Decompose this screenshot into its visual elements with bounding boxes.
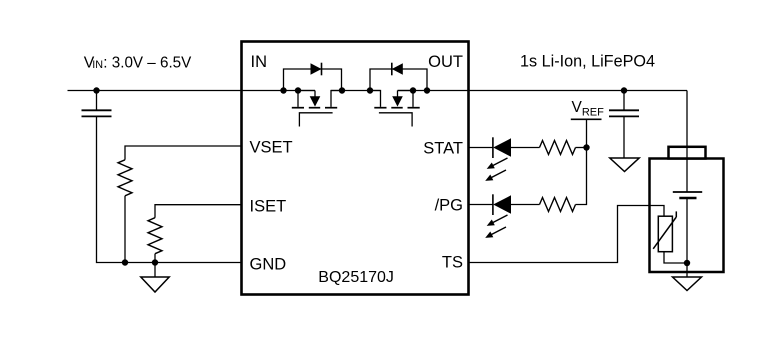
- wire: battery positive feed through terminal: [686, 91, 688, 193]
- wire: R1 bottom to ground rail: [124, 196, 126, 263]
- diode D2 (Q2 body diode) loop wire: [370, 69, 427, 91]
- resistor R3 (STAT): [540, 141, 576, 155]
- wire: cell negative to bottom node: [686, 198, 688, 277]
- wire: R4 right end up to VREF node: [576, 148, 587, 205]
- node: Q2 drain junction: [367, 87, 373, 93]
- thermistor RT1 body: [658, 216, 672, 252]
- capacitor C2 (output): [623, 91, 625, 111]
- node: Q2 body-diode cathode junction: [424, 87, 430, 93]
- transistor Q1 channel bars: [292, 107, 304, 109]
- capacitor C1 (input): [96, 91, 98, 111]
- transistor Q1 gate: [299, 113, 332, 127]
- wire: C2 bottom lead: [623, 116, 625, 158]
- battery terminal bump: [669, 147, 706, 159]
- ground symbol (battery): [673, 277, 702, 291]
- svg-text:BQ25170J: BQ25170J: [318, 269, 394, 286]
- transistor Q2 source lead: [412, 91, 414, 107]
- transistor Q1 substrate arrow: [298, 90, 315, 92]
- wire: ISET pin to R2: [155, 205, 242, 218]
- ground symbol (under C2): [610, 158, 639, 172]
- LED D3 emission arrows: [492, 158, 508, 166]
- transistor Q2 gate: [379, 113, 412, 127]
- battery cell BT1: [673, 191, 702, 193]
- wire: /PG pin to LED D4: [469, 204, 493, 206]
- svg-text:TS: TS: [442, 253, 463, 271]
- transistor Q1 drain lead: [331, 91, 342, 107]
- node: OUT rail / C2 junction: [621, 87, 627, 93]
- resistor R2 (ISET): [148, 218, 162, 254]
- svg-text:ISET: ISET: [250, 197, 287, 215]
- svg-text:/PG: /PG: [435, 196, 463, 214]
- diode D1 symbol: [311, 63, 322, 74]
- wire: TS pin to thermistor: [469, 206, 665, 263]
- wire: rail segment between Q1 drain and Q2 drain: [331, 90, 381, 92]
- wire: output rail segment (OUT net to battery): [398, 90, 688, 92]
- wire: ground stub: [154, 263, 156, 278]
- node: Q1 source junction: [295, 87, 301, 93]
- svg-text:IN: IN: [92, 59, 103, 71]
- diode D2 symbol: [392, 63, 403, 74]
- svg-text:STAT: STAT: [423, 139, 463, 157]
- node: VIN input junction: [93, 87, 99, 93]
- VREF underline bar: [571, 118, 602, 120]
- resistor R4 (/PG): [540, 198, 576, 212]
- svg-text:1s Li-Ion, LiFePO4: 1s Li-Ion, LiFePO4: [520, 53, 655, 71]
- node: Q2 source junction: [410, 87, 416, 93]
- transistor Q2 channel bars: [374, 107, 386, 109]
- IC U1 BQ25170J package outline: [242, 42, 469, 295]
- wire: thermistor bottom to battery negative: [664, 252, 687, 263]
- LED D3 (STAT) cathode bar: [492, 137, 494, 158]
- node: battery negative junction: [684, 260, 690, 266]
- wire: D4 anode to R4: [511, 204, 540, 206]
- LED D4 (/PG) triangle: [493, 195, 511, 214]
- node: Q1 body-diode anode junction: [280, 87, 286, 93]
- battery pack outline: [650, 159, 724, 273]
- node: R1/ground rail junction: [122, 259, 128, 265]
- transistor Q2 substrate arrow: [398, 90, 414, 92]
- node: Q1 drain junction: [339, 87, 345, 93]
- resistor R1 (VSET): [118, 160, 132, 196]
- LED D4 (/PG) cathode bar: [492, 194, 494, 215]
- wire: VREF bar down to STAT node: [586, 119, 588, 147]
- thermistor RT1 diagonal: [653, 217, 676, 249]
- wire: input rail left segment (IN net): [68, 90, 316, 92]
- node: VREF junction: [583, 144, 589, 150]
- diode D1 (Q1 body diode) loop wire: [284, 69, 342, 91]
- wire: D3 anode to R3: [511, 147, 540, 149]
- svg-text:OUT: OUT: [428, 53, 463, 71]
- node: R2/ground rail junction: [152, 259, 158, 265]
- wire: R2 bottom to ground rail: [154, 254, 156, 263]
- svg-text:: 3.0V – 6.5V: : 3.0V – 6.5V: [103, 55, 191, 72]
- transistor Q2 drain lead: [370, 91, 381, 107]
- LED D4 emission arrows: [492, 215, 508, 223]
- wire: C1 bottom to ground rail: [97, 116, 242, 262]
- wire: R3 to VREF node: [576, 147, 587, 149]
- wire: VSET pin to R1: [125, 146, 242, 160]
- ground symbol (input side): [141, 277, 169, 292]
- transistor Q1 source lead: [297, 91, 299, 107]
- svg-text:IN: IN: [251, 53, 268, 71]
- wire: STAT pin to LED D3: [469, 147, 493, 149]
- LED D3 (STAT) triangle: [493, 138, 511, 157]
- svg-text:GND: GND: [250, 256, 287, 274]
- svg-text:VSET: VSET: [250, 138, 293, 156]
